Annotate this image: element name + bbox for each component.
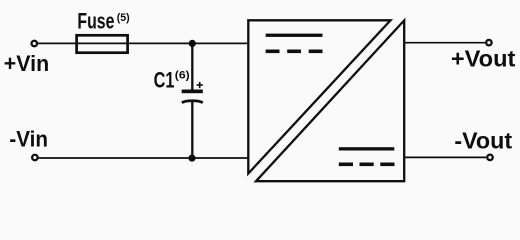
svg-text:C1: C1 bbox=[154, 68, 175, 93]
svg-text:+Vin: +Vin bbox=[4, 51, 49, 76]
svg-text:Fuse: Fuse bbox=[77, 9, 114, 34]
svg-text:(5): (5) bbox=[117, 12, 130, 24]
svg-text:-Vout: -Vout bbox=[454, 128, 512, 154]
svg-text:-Vin: -Vin bbox=[9, 127, 48, 152]
svg-text:+Vout: +Vout bbox=[451, 45, 516, 71]
svg-text:(6): (6) bbox=[175, 70, 190, 82]
